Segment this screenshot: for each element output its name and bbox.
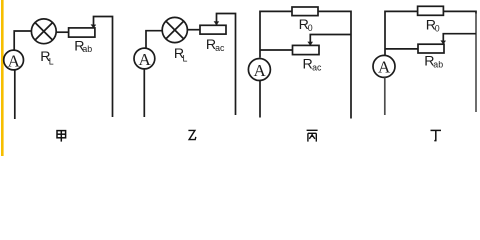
svg-text:ab: ab — [433, 59, 443, 69]
svg-text:0: 0 — [435, 23, 440, 33]
svg-text:ac: ac — [312, 62, 322, 72]
svg-text:A: A — [253, 61, 266, 80]
svg-text:L: L — [49, 57, 54, 67]
svg-text:L: L — [183, 54, 188, 64]
svg-text:0: 0 — [308, 23, 313, 33]
svg-text:ac: ac — [215, 43, 225, 53]
svg-text:ab: ab — [82, 44, 92, 54]
svg-text:A: A — [138, 50, 151, 69]
svg-text:A: A — [8, 51, 21, 70]
svg-text:A: A — [378, 58, 391, 77]
